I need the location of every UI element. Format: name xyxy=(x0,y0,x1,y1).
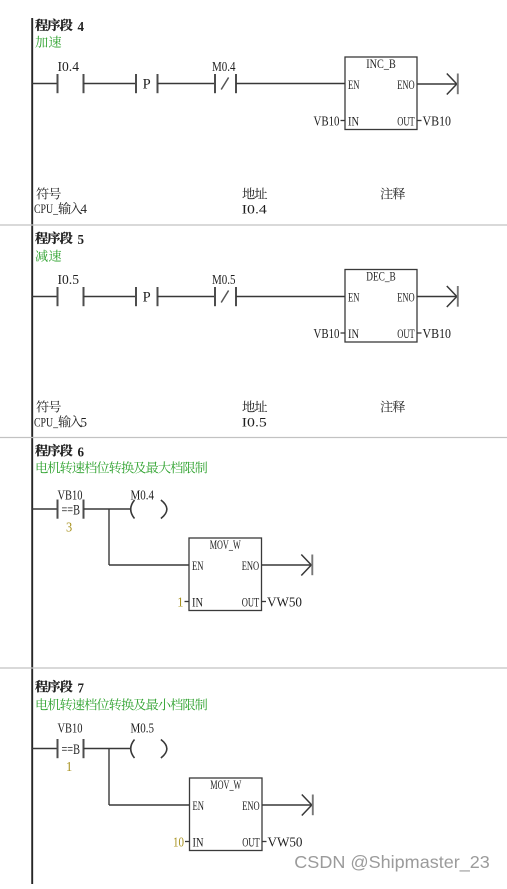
svg-text:I0.5: I0.5 xyxy=(242,415,267,430)
svg-text:VB10: VB10 xyxy=(423,327,452,342)
svg-text:MOV_W: MOV_W xyxy=(210,777,241,792)
svg-text:EN: EN xyxy=(348,290,360,305)
svg-text:EN: EN xyxy=(192,558,204,573)
symbol table 4 header 地址 xyxy=(242,187,267,199)
DEC_B U5 OUT pin stub xyxy=(417,332,422,334)
svg-text:1: 1 xyxy=(177,596,183,611)
junction node network 7 xyxy=(108,747,110,749)
branch wire down from junction net6 xyxy=(108,509,110,565)
wire contact P to contact M0.5 xyxy=(158,296,216,298)
branch wire down from junction net7 xyxy=(108,749,110,806)
svg-text:OUT: OUT xyxy=(397,326,415,341)
svg-text:ENO: ENO xyxy=(242,558,260,573)
wire contact P to contact M0.4 xyxy=(158,83,216,85)
coil M0.4 right paren xyxy=(161,500,167,519)
contact VB10 ==B compare right bar xyxy=(83,500,85,519)
svg-text:OUT: OUT xyxy=(242,595,260,610)
svg-text:10: 10 xyxy=(173,836,184,851)
network 7 comment xyxy=(37,698,207,710)
svg-text:EN: EN xyxy=(348,77,360,92)
coil M0.4 left paren xyxy=(131,500,135,519)
rung continuation arrow network 6 xyxy=(301,555,311,576)
svg-text:IN: IN xyxy=(192,595,203,610)
contact P left bar xyxy=(135,74,137,93)
svg-text:VB10: VB10 xyxy=(314,327,340,342)
symbol table 4 name 输入 xyxy=(58,202,82,214)
svg-text:M0.4: M0.4 xyxy=(212,60,236,75)
contact I0.5 left bar xyxy=(57,287,59,306)
svg-text:P: P xyxy=(143,290,151,306)
svg-text:IN: IN xyxy=(348,326,359,341)
svg-text:CPU_: CPU_ xyxy=(34,201,58,216)
branch wire to MOV_W EN net6 xyxy=(109,564,189,566)
rung continuation arrow network 5 xyxy=(447,286,457,307)
svg-text:M0.4: M0.4 xyxy=(131,488,155,503)
svg-text:OUT: OUT xyxy=(397,114,415,129)
function block MOV_W U7 body xyxy=(190,778,263,851)
symbol table 5 name 输入 xyxy=(58,415,82,427)
wire rail to contact I0.4 xyxy=(32,83,57,85)
rung continuation arrow network 4 xyxy=(447,74,457,95)
network 6 comment xyxy=(37,461,207,473)
svg-text:EN: EN xyxy=(193,798,205,813)
svg-text:5: 5 xyxy=(81,414,88,429)
contact VB10 ==B compare net7 right bar xyxy=(83,739,85,758)
MOV_W U7 OUT pin stub xyxy=(262,841,267,843)
contact I0.4 right bar xyxy=(83,74,85,93)
svg-text:M0.5: M0.5 xyxy=(212,273,236,288)
svg-text:4: 4 xyxy=(81,201,88,216)
DEC_B U5 IN pin stub xyxy=(341,332,346,334)
network 4 comment 加速 xyxy=(35,36,61,48)
coil M0.5 right paren xyxy=(161,740,167,759)
rung continuation arrow network 7 xyxy=(302,795,312,816)
svg-text:VB10: VB10 xyxy=(314,115,340,130)
symbol table 5 header 地址 xyxy=(242,400,267,412)
contact M0.5 left bar xyxy=(214,287,216,306)
svg-text:4: 4 xyxy=(78,20,85,35)
svg-text:CSDN @Shipmaster_23: CSDN @Shipmaster_23 xyxy=(294,852,490,873)
wire rail to contact I0.5 xyxy=(32,296,57,298)
MOV_W U7 IN pin stub xyxy=(185,841,190,843)
wire MOV_W ENO to arrow net6 xyxy=(262,564,312,566)
function block DEC_B U5 body xyxy=(345,270,417,343)
svg-text:3: 3 xyxy=(66,521,72,536)
network 5 comment 减速 xyxy=(36,250,62,262)
svg-text:VW50: VW50 xyxy=(268,836,303,851)
wire compare contact to junction and coil xyxy=(84,508,131,510)
svg-text:VB10: VB10 xyxy=(423,115,452,130)
contact M0.4 NC slash xyxy=(221,78,228,90)
wire MOV_W ENO to arrow net7 xyxy=(262,804,312,806)
wire rail to compare contact xyxy=(32,508,57,510)
svg-text:VB10: VB10 xyxy=(58,488,83,503)
symbol table 4 header 注释 xyxy=(381,187,405,199)
svg-text:6: 6 xyxy=(78,445,85,460)
svg-text:IN: IN xyxy=(348,114,359,129)
contact I0.4 left bar xyxy=(57,74,59,93)
svg-text:ENO: ENO xyxy=(397,77,415,92)
svg-text:5: 5 xyxy=(78,233,85,248)
svg-text:IN: IN xyxy=(193,835,204,850)
svg-text:VB10: VB10 xyxy=(58,721,83,736)
contact P right bar xyxy=(157,74,159,93)
contact P net5 left bar xyxy=(135,287,137,306)
network 5 title xyxy=(35,232,72,244)
wire DEC_B ENO to arrow xyxy=(417,296,457,298)
symbol table 5 header 符号 xyxy=(36,400,61,412)
coil M0.5 left paren xyxy=(131,740,135,759)
svg-text:I0.4: I0.4 xyxy=(58,60,80,75)
wire contact M0.5 to DEC_B EN xyxy=(236,296,345,298)
contact M0.5 right bar xyxy=(235,287,237,306)
svg-text:INC_B: INC_B xyxy=(366,56,396,71)
svg-text:I0.5: I0.5 xyxy=(58,273,80,288)
branch wire to MOV_W EN net7 xyxy=(109,804,190,806)
contact I0.5 right bar xyxy=(83,287,85,306)
network 7 title xyxy=(35,680,72,692)
network 4 title xyxy=(35,19,72,31)
wire contact I0.4 to contact P xyxy=(84,83,137,85)
left power rail xyxy=(31,18,33,884)
svg-text:P: P xyxy=(143,77,151,93)
contact M0.5 NC slash xyxy=(221,291,228,303)
arrow network 4 end bar xyxy=(457,74,459,95)
network separator 1 xyxy=(0,224,507,226)
svg-text:1: 1 xyxy=(66,760,72,775)
svg-text:==B: ==B xyxy=(62,742,81,758)
wire rail to compare contact net7 xyxy=(32,748,57,750)
arrow network 5 end bar xyxy=(457,286,459,307)
MOV_W U6 OUT pin stub xyxy=(262,601,267,603)
arrow network 6 end bar xyxy=(311,555,313,576)
contact VB10 ==B compare net7 left bar xyxy=(57,739,59,758)
MOV_W U6 IN pin stub xyxy=(185,601,190,603)
svg-text:M0.5: M0.5 xyxy=(131,721,155,736)
svg-text:DEC_B: DEC_B xyxy=(366,268,396,283)
contact P net5 right bar xyxy=(157,287,159,306)
wire INC_B ENO to arrow xyxy=(417,83,457,85)
function block INC_B U4 body xyxy=(345,57,417,130)
arrow network 7 end bar xyxy=(312,795,314,816)
svg-text:OUT: OUT xyxy=(242,835,260,850)
svg-text:ENO: ENO xyxy=(397,290,415,305)
contact M0.4 left bar xyxy=(214,74,216,93)
contact M0.4 right bar xyxy=(235,74,237,93)
contact VB10 ==B compare left bar xyxy=(57,500,59,519)
network separator 2 xyxy=(0,437,507,439)
svg-text:VW50: VW50 xyxy=(267,596,302,611)
symbol table 4 header 符号 xyxy=(36,187,61,199)
wire contact I0.5 to contact P xyxy=(84,296,137,298)
svg-text:MOV_W: MOV_W xyxy=(210,537,241,552)
svg-text:==B: ==B xyxy=(62,502,81,518)
network separator 3 xyxy=(0,667,507,669)
junction node network 6 xyxy=(108,508,110,510)
network 6 title xyxy=(35,444,72,456)
wire compare contact to junction and coil net7 xyxy=(84,748,131,750)
INC_B U4 IN pin stub xyxy=(341,120,346,122)
svg-text:ENO: ENO xyxy=(242,798,260,813)
svg-text:7: 7 xyxy=(78,681,85,696)
function block MOV_W U6 body xyxy=(189,538,262,611)
symbol table 5 header 注释 xyxy=(381,400,405,412)
INC_B U4 OUT pin stub xyxy=(417,120,422,122)
svg-text:CPU_: CPU_ xyxy=(34,414,58,429)
svg-text:I0.4: I0.4 xyxy=(242,202,268,217)
wire contact M0.4 to INC_B EN xyxy=(236,83,345,85)
